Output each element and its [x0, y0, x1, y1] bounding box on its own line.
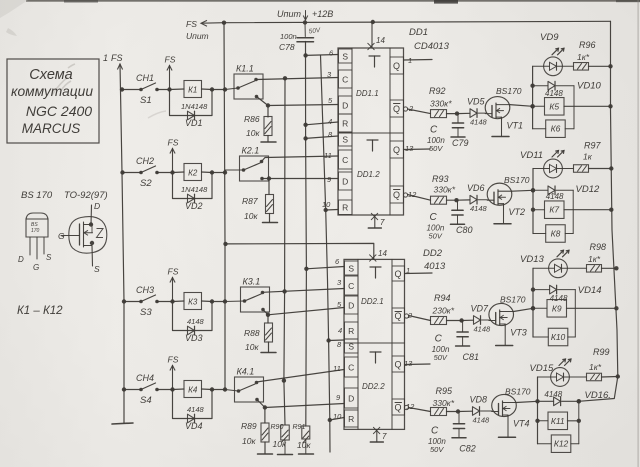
- relay coil K4: [184, 381, 202, 398]
- diode VD6: [470, 195, 477, 204]
- wire node to K1 coil: [170, 88, 185, 91]
- wire K4.1 upper contact to DD2 pin11: [257, 370, 345, 383]
- svg-text:G: G: [58, 231, 65, 241]
- label S3: [140, 307, 152, 318]
- LED VD13: [533, 259, 567, 278]
- wire K3.1 upper contact to DD2 pin3: [263, 289, 345, 294]
- wire row4 drain row to bus: [577, 377, 618, 404]
- svg-text:К9: К9: [552, 303, 562, 313]
- svg-text:C: C: [342, 74, 348, 84]
- wire K4.1 lower contact to R89/DD2 pin9: [257, 400, 344, 410]
- label R87: [242, 196, 258, 206]
- label 330к*: [433, 398, 455, 408]
- capacitor C80: [452, 200, 463, 224]
- svg-text:VD5: VD5: [467, 97, 486, 107]
- switch S1: [139, 83, 159, 91]
- label BS170: [496, 86, 522, 96]
- label R93: [432, 174, 449, 184]
- ground (C79): [451, 136, 465, 138]
- DD2 pin 12 (Qbar): [392, 399, 415, 415]
- relay coil К11: [535, 412, 567, 430]
- svg-text:2: 2: [408, 104, 414, 113]
- DD2 pin 5 (D): [337, 296, 358, 314]
- wire K1 coil to bus: [202, 87, 228, 91]
- svg-text:R86: R86: [244, 114, 260, 124]
- svg-text:VT2: VT2: [509, 207, 526, 217]
- svg-text:R99: R99: [593, 347, 610, 357]
- resistor R90: [281, 425, 290, 454]
- svg-text:R96: R96: [579, 40, 596, 50]
- ground (VT1): [492, 136, 509, 138]
- label C82: [459, 444, 476, 454]
- wire to DD1 pin6: [306, 54, 338, 57]
- svg-text:4148: 4148: [545, 89, 563, 98]
- DD2 pin 8 (S): [337, 339, 358, 353]
- DD1 pin 1 stub: [404, 59, 433, 62]
- label R96: [579, 40, 596, 50]
- ground (VT2): [494, 223, 511, 225]
- svg-text:D: D: [348, 393, 354, 403]
- svg-text:13: 13: [404, 359, 413, 368]
- label R90: [271, 424, 284, 431]
- relay contact К1.1: [225, 74, 263, 99]
- relay coil K2: [184, 164, 202, 181]
- label C: [430, 212, 438, 223]
- svg-text:10к: 10к: [297, 440, 311, 450]
- label DD2.1: [361, 297, 384, 306]
- wire VT3 source to ground: [504, 326, 506, 345]
- svg-text:S: S: [46, 253, 52, 262]
- label VD13: [520, 254, 544, 265]
- wire R95 to node: [447, 409, 473, 413]
- svg-text:Q: Q: [393, 190, 400, 200]
- label 10k: [242, 436, 256, 446]
- wire R96 to +12V bus: [589, 64, 613, 68]
- svg-text:S2: S2: [140, 178, 152, 189]
- svg-text:D: D: [342, 100, 348, 110]
- diode VD4 loop: [173, 390, 213, 419]
- label CH4: [136, 373, 154, 383]
- label R92: [429, 86, 446, 96]
- label R89: [241, 421, 257, 431]
- wire R93 to node: [447, 198, 471, 202]
- wire K2.1 lower contact to R87/DD1 pin9: [262, 176, 338, 180]
- wire К9 to bus: [567, 306, 619, 310]
- wire К12 to diode rail: [571, 443, 579, 445]
- wire node to K3 coil: [173, 300, 185, 303]
- label 4148: [545, 89, 563, 98]
- diode VD3: [188, 326, 195, 335]
- label 4148: [546, 192, 564, 201]
- svg-text:S3: S3: [140, 307, 152, 318]
- T mark DD1.2: [367, 140, 378, 151]
- svg-text:S: S: [348, 263, 354, 273]
- svg-text:4148: 4148: [470, 118, 488, 127]
- DD2 pin 9 (D): [336, 388, 358, 408]
- ground (bus bottom): [112, 423, 133, 424]
- wire К10 to diode rail: [568, 336, 576, 338]
- label R98: [590, 242, 607, 252]
- label VD5: [467, 97, 486, 107]
- wire K2 coil to bus: [202, 170, 228, 174]
- svg-text:MARCUS: MARCUS: [22, 121, 81, 136]
- svg-text:VD1: VD1: [185, 118, 203, 128]
- resistor R88: [265, 315, 273, 352]
- label DD2: [423, 248, 443, 259]
- svg-text:BS170: BS170: [500, 295, 526, 305]
- label 4013: [424, 261, 446, 272]
- resistor R96: [562, 63, 588, 71]
- svg-text:4148: 4148: [473, 416, 491, 425]
- label R95: [436, 386, 454, 396]
- label VT3: [510, 328, 527, 338]
- svg-text:FS: FS: [168, 355, 179, 365]
- svg-text:D: D: [348, 300, 354, 310]
- svg-text:Uпит: Uпит: [277, 9, 301, 19]
- svg-text:330к*: 330к*: [434, 185, 456, 195]
- capacitor C82: [453, 412, 464, 438]
- svg-text:C81: C81: [463, 352, 480, 362]
- FS label (bus top): [103, 53, 123, 63]
- svg-text:4148: 4148: [546, 192, 564, 201]
- svg-text:VD11: VD11: [520, 150, 543, 161]
- relay coil К10: [533, 328, 568, 346]
- svg-text:VD14: VD14: [578, 285, 602, 296]
- svg-text:VD4: VD4: [185, 421, 203, 431]
- label 50V: [429, 144, 443, 153]
- wire VТ4 source to ground: [507, 417, 509, 437]
- svg-text:D: D: [342, 176, 348, 186]
- label VT1: [507, 121, 524, 131]
- label VD10: [577, 81, 601, 92]
- svg-text:FS: FS: [168, 267, 179, 277]
- DD1 pin 3 (C): [327, 70, 352, 88]
- LED VD15: [538, 368, 570, 387]
- label VD9: [540, 32, 559, 43]
- svg-text:C: C: [348, 362, 354, 372]
- svg-text:VD6: VD6: [467, 183, 485, 193]
- label К1.1: [236, 64, 254, 74]
- svg-text:4148: 4148: [187, 317, 205, 326]
- DD2 pin 13 (Q): [392, 356, 413, 372]
- label 100n: [280, 32, 297, 41]
- diode VD16.: [538, 397, 582, 406]
- relay coil bus (+12V vertical): [222, 21, 226, 390]
- wire diode to VT3 gate: [482, 319, 490, 321]
- svg-text:FS: FS: [111, 53, 123, 63]
- svg-text:4148: 4148: [474, 325, 492, 334]
- label BS170: [504, 175, 530, 185]
- svg-text:коммутации: коммутации: [11, 84, 93, 99]
- relay coil К8: [533, 225, 565, 243]
- wire CH2 to switch: [123, 172, 141, 174]
- svg-text:1: 1: [103, 53, 108, 63]
- Uout FS arrow (top left): [186, 19, 224, 41]
- svg-text:К4: К4: [188, 386, 198, 395]
- wire CH1 to switch: [121, 89, 141, 91]
- label S4: [140, 395, 152, 406]
- svg-text:14: 14: [378, 249, 387, 258]
- LED arrows VD11: [552, 151, 564, 158]
- svg-text:C82: C82: [459, 444, 476, 454]
- label BS170: [500, 295, 526, 305]
- T mark DD2.1: [370, 267, 381, 278]
- LED arrows VD13: [557, 250, 569, 256]
- svg-text:К6: К6: [551, 124, 561, 134]
- +12V supply rail (top): [224, 21, 611, 22]
- ground (R88): [261, 352, 276, 354]
- svg-text:К1.1: К1.1: [236, 64, 254, 74]
- title text: [11, 67, 93, 136]
- wire diode rail (row 3): [574, 290, 576, 337]
- wire DD pin to R92: [408, 109, 431, 114]
- wire to DD1 pin4: [306, 122, 338, 125]
- label C80: [456, 225, 473, 235]
- svg-text:7: 7: [382, 432, 387, 441]
- wire diode to VТ4 gate: [481, 410, 493, 412]
- label R91: [293, 424, 306, 431]
- svg-text:VT3: VT3: [510, 328, 527, 338]
- svg-text:4148: 4148: [544, 390, 562, 399]
- transistor VT2 (BS170): [487, 183, 512, 206]
- wire relay rail (row 4): [537, 377, 539, 444]
- label R99: [593, 347, 610, 357]
- node CH3 input: [122, 299, 126, 303]
- wire K2.1 upper contact to DD1 pin11: [262, 156, 339, 162]
- svg-text:10к: 10к: [244, 211, 258, 221]
- wire R97 to +12V bus: [589, 166, 614, 170]
- svg-text:4148: 4148: [470, 204, 488, 213]
- wire relay rail (row 3): [532, 268, 534, 337]
- DD2 pin 13 stub: [405, 363, 431, 366]
- wire К7 to bus: [564, 208, 614, 212]
- wire DD pin to R94: [409, 316, 431, 321]
- svg-text:FS: FS: [186, 19, 197, 29]
- label 100n: [432, 345, 450, 354]
- wire diode to VT2 gate: [478, 199, 488, 201]
- svg-text:К11: К11: [551, 416, 565, 426]
- DD1 pin 9 (D): [327, 172, 352, 190]
- node CH1 input: [120, 87, 124, 91]
- diode VD8: [473, 407, 480, 416]
- DD1 pin 1 (Q): [390, 56, 412, 74]
- label 1к*: [577, 52, 590, 62]
- resistor R89: [261, 408, 269, 454]
- ground (VТ4): [499, 436, 516, 438]
- wire CH3 to switch: [125, 301, 141, 303]
- svg-text:К10: К10: [551, 332, 566, 342]
- ground (R86): [261, 141, 276, 143]
- wire diode rail (row 2): [572, 190, 574, 233]
- label К3.1: [243, 277, 261, 287]
- label 4148: [550, 294, 568, 303]
- relay coil К12: [538, 435, 571, 453]
- label 4148: [473, 416, 491, 425]
- LED VD11: [533, 159, 562, 178]
- svg-text:R91: R91: [293, 424, 306, 431]
- DD2 pin 4 (R): [338, 322, 358, 339]
- wire diode to VT1 gate: [478, 112, 486, 114]
- resistor R86: [264, 106, 272, 142]
- label C: [435, 334, 443, 345]
- transistor VT3 (BS170): [489, 303, 514, 326]
- svg-text:R95: R95: [436, 386, 454, 396]
- svg-text:К12: К12: [554, 439, 569, 449]
- node CH2 input: [120, 170, 124, 174]
- ground (C80): [451, 223, 465, 225]
- resistor R97: [562, 165, 588, 173]
- relay list label K1-K12: [17, 305, 63, 317]
- relay coil К5: [530, 98, 564, 116]
- label VD4: [185, 421, 203, 431]
- svg-text:VD10: VD10: [577, 81, 601, 92]
- svg-text:CH1: CH1: [136, 73, 154, 83]
- wire VТ4 drain to relay rail: [516, 399, 539, 403]
- relay coil К6: [533, 120, 566, 138]
- transistor VT1 (BS170): [485, 97, 510, 120]
- svg-text:VD3: VD3: [185, 333, 203, 343]
- label 330к*: [430, 99, 452, 109]
- wire K1.1 lower contact to R86/DD1 pin5: [257, 97, 339, 108]
- resistor R98: [567, 265, 601, 273]
- label VT2: [509, 207, 526, 217]
- svg-text:10: 10: [333, 412, 342, 421]
- label 4148: [474, 325, 492, 334]
- label 100n: [427, 136, 445, 145]
- diode VD14: [531, 285, 576, 294]
- flip-flop DD1 body: [338, 48, 404, 215]
- svg-text:VD9: VD9: [540, 32, 559, 43]
- DD2 pin 1 (Q): [392, 266, 410, 281]
- svg-text:7: 7: [380, 218, 385, 227]
- DD1 pin 14 supply: [368, 20, 386, 50]
- svg-text:К4.1: К4.1: [237, 367, 255, 377]
- svg-text:CH4: CH4: [136, 373, 154, 383]
- label CD4013: [414, 41, 450, 52]
- label C: [431, 425, 439, 436]
- label 230к*: [432, 306, 455, 316]
- diode VD5: [470, 109, 477, 118]
- label C78: [279, 42, 295, 52]
- svg-text:DD1.2: DD1.2: [357, 170, 380, 179]
- diode VD1: [188, 111, 195, 120]
- svg-text:Q: Q: [394, 360, 401, 370]
- diode VD1 loop: [170, 90, 213, 116]
- svg-text:S1: S1: [140, 95, 152, 106]
- svg-text:К5: К5: [549, 101, 559, 111]
- label VD1: [185, 118, 203, 128]
- FS arrow CH1: [165, 55, 176, 89]
- svg-text:230к*: 230к*: [432, 306, 455, 316]
- svg-text:C: C: [342, 155, 348, 165]
- svg-text:10к: 10к: [242, 436, 256, 446]
- svg-text:1N4148: 1N4148: [181, 185, 208, 194]
- label 100n: [427, 223, 445, 232]
- switch S4: [139, 383, 159, 391]
- DD2 pin 2 (Qbar): [392, 308, 413, 323]
- svg-text:100n: 100n: [280, 32, 297, 41]
- T mark DD1.1: [369, 56, 380, 67]
- relay coil K1: [184, 81, 202, 98]
- BS170 TO-92 package label: [21, 190, 108, 201]
- wire set/reset bus C: [303, 42, 308, 427]
- svg-text:К7: К7: [549, 205, 559, 215]
- label 1к*: [589, 362, 602, 372]
- DD1 pin 10 (R): [322, 200, 352, 215]
- label VD15: [530, 363, 554, 374]
- wire К11 to bus: [568, 419, 582, 423]
- svg-text:1к*: 1к*: [577, 52, 590, 62]
- wire К8 to diode rail: [565, 233, 573, 235]
- label 1к*: [588, 254, 601, 264]
- svg-text:BS 170: BS 170: [21, 190, 53, 201]
- ground (R89): [258, 453, 273, 455]
- svg-text:10: 10: [322, 200, 331, 209]
- wire diode rail (row 1): [573, 86, 575, 129]
- svg-text:4148: 4148: [187, 405, 205, 414]
- svg-text:1к: 1к: [583, 152, 593, 162]
- svg-text:13: 13: [405, 144, 414, 153]
- T mark DD2.2: [370, 352, 381, 363]
- svg-text:К3: К3: [188, 298, 198, 307]
- label VD12: [576, 184, 600, 195]
- wire relay rail (row 1): [532, 66, 534, 128]
- svg-text:C: C: [430, 125, 438, 136]
- wire DD pin to R93: [408, 195, 431, 201]
- wire К6 to diode rail: [565, 128, 574, 130]
- relay contact К4.1: [225, 377, 264, 402]
- label 10k: [245, 342, 259, 352]
- svg-text:DD1: DD1: [409, 27, 428, 38]
- svg-text:11: 11: [324, 151, 332, 160]
- DD1 pin 7 ground: [368, 213, 385, 228]
- diode VD10: [530, 81, 574, 90]
- label 4148: [470, 204, 488, 213]
- wire switch to node: [157, 170, 175, 174]
- DD2 pin 1 stub: [405, 272, 433, 275]
- label S2: [140, 178, 152, 189]
- label К4.1: [237, 367, 255, 377]
- wire to DD2 pin4/8: [329, 339, 344, 342]
- DD2 pin 11 (C): [333, 357, 358, 377]
- svg-text:4: 4: [338, 326, 342, 335]
- flip-flop DD2 body: [344, 259, 405, 429]
- DD1 pin 5 (D): [328, 96, 352, 114]
- FS arrow CH2: [168, 138, 179, 172]
- svg-text:Q: Q: [394, 269, 401, 279]
- node CH4 input: [122, 387, 126, 391]
- wire to DD2 pin6: [306, 267, 344, 269]
- diode VD3 loop: [173, 302, 213, 331]
- svg-text:К2.1: К2.1: [242, 146, 260, 156]
- wire VT1 drain to relay rail: [510, 104, 535, 108]
- svg-text:C: C: [435, 334, 443, 345]
- wire CH4 to switch: [125, 389, 141, 391]
- wire switch to node: [157, 87, 172, 91]
- wire to DD2 pin10: [330, 418, 344, 421]
- svg-text:DD1.1: DD1.1: [356, 89, 379, 98]
- wire set/reset bus D: [321, 55, 332, 452]
- label VD6: [467, 183, 485, 193]
- svg-text:CD4013: CD4013: [414, 41, 450, 52]
- DD2 pin 7 ground: [370, 427, 387, 442]
- label 4148: [544, 390, 562, 399]
- Upit +12V label: [277, 9, 333, 20]
- svg-text:R: R: [342, 118, 348, 128]
- DD1 pin 2 (Qbar): [390, 100, 414, 117]
- capacitor C81: [457, 321, 468, 346]
- svg-text:DD2.2: DD2.2: [362, 382, 385, 391]
